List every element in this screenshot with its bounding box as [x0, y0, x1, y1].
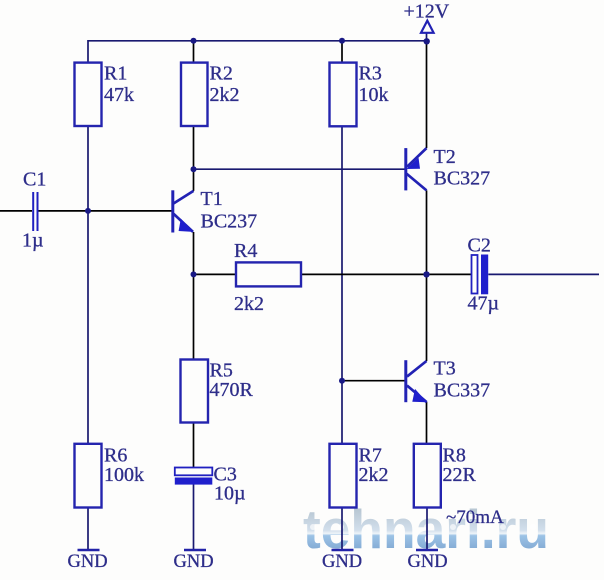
svg-text:GND: GND: [322, 552, 362, 572]
svg-text:BC327: BC327: [434, 168, 491, 190]
svg-text:R2: R2: [210, 63, 233, 85]
svg-text:+12V: +12V: [404, 1, 450, 23]
svg-text:10µ: 10µ: [214, 483, 246, 505]
svg-text:2k2: 2k2: [359, 464, 389, 486]
svg-text:10k: 10k: [359, 84, 389, 106]
svg-text:C1: C1: [23, 169, 46, 191]
svg-text:100k: 100k: [104, 464, 144, 486]
svg-text:R3: R3: [359, 63, 382, 85]
svg-text:T1: T1: [201, 188, 223, 210]
svg-text:47µ: 47µ: [468, 293, 500, 315]
svg-text:R4: R4: [234, 240, 257, 262]
svg-text:22R: 22R: [443, 464, 477, 486]
svg-text:GND: GND: [68, 552, 108, 572]
svg-text:C2: C2: [468, 235, 491, 257]
svg-text:470R: 470R: [210, 379, 254, 401]
svg-text:~70mA: ~70mA: [446, 507, 504, 528]
svg-text:1µ: 1µ: [22, 230, 44, 252]
svg-text:T3: T3: [434, 358, 456, 380]
svg-text:47k: 47k: [104, 84, 134, 106]
svg-text:BC337: BC337: [434, 380, 491, 402]
svg-text:T2: T2: [434, 146, 456, 168]
svg-text:GND: GND: [174, 552, 214, 572]
svg-text:R1: R1: [104, 63, 127, 85]
svg-text:GND: GND: [408, 552, 448, 572]
svg-text:2k2: 2k2: [210, 84, 240, 106]
svg-text:BC237: BC237: [201, 211, 258, 233]
svg-text:2k2: 2k2: [234, 293, 264, 315]
